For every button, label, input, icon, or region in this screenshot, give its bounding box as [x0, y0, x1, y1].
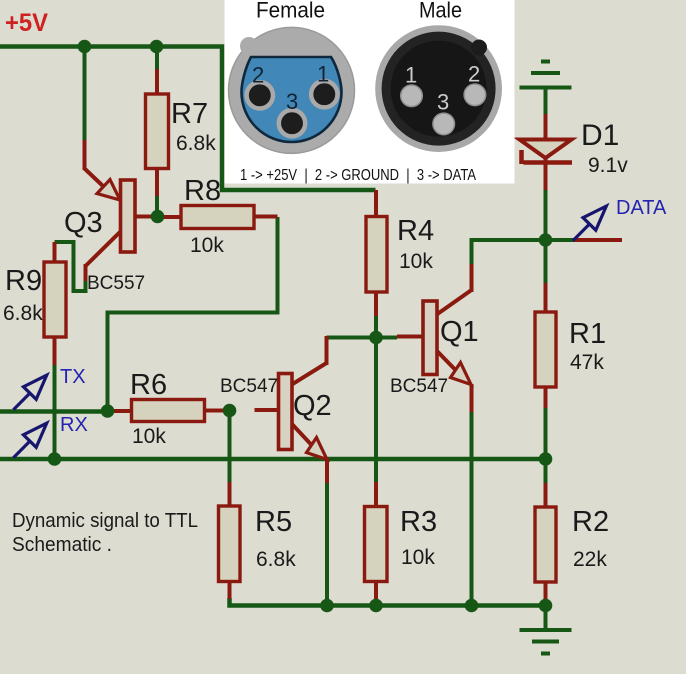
pin 2 of R3: [374, 581, 378, 602]
wire +5V rail from left edge around white panel to R4: [0, 47, 376, 191]
node rail/R2/ground: [539, 599, 553, 613]
ground symbol (bottom): [520, 630, 572, 654]
wire top ground stem: [544, 89, 548, 116]
pin 2 of R8: [254, 215, 278, 219]
wire D1 anode to DATA node and down to R1: [544, 189, 548, 285]
svg-text:6.8k: 6.8k: [176, 132, 216, 155]
node DATA: [539, 233, 553, 247]
svg-text:2: 2: [252, 62, 264, 87]
pin 2 of R4: [374, 292, 378, 316]
node Q2 collector/R4/R3: [369, 331, 383, 345]
svg-text:TX: TX: [60, 366, 86, 388]
svg-text:BC557: BC557: [87, 273, 145, 294]
svg-text:2: 2: [468, 61, 480, 86]
svg-text:R3: R3: [400, 506, 437, 538]
wire DATA node to terminal: [546, 238, 575, 242]
wire Q2 emitter down to bottom rail: [325, 482, 329, 606]
connector XLR male: [375, 25, 502, 152]
collector pin of Q2: [291, 363, 327, 385]
wire R9 bottom to RX line: [53, 364, 57, 459]
resistor R3: [365, 482, 438, 602]
svg-text:22k: 22k: [573, 548, 607, 571]
base bar of Q1: [423, 301, 437, 375]
base bar of Q2: [279, 374, 293, 450]
svg-text:R8: R8: [184, 175, 221, 207]
svg-text:R5: R5: [255, 506, 292, 538]
node rail/Q2 emitter: [320, 599, 334, 613]
base bar of Q3: [121, 180, 136, 252]
female blue insert: [242, 57, 342, 142]
resistor R8: [163, 175, 278, 257]
body of R8: [181, 206, 254, 229]
svg-text:10k: 10k: [401, 546, 435, 569]
node R7/R8/Q3 base: [151, 210, 165, 224]
wire RX line: [0, 457, 546, 462]
female shell: [229, 27, 355, 153]
node +5V/Q3: [78, 40, 92, 54]
svg-text:R2: R2: [572, 506, 609, 538]
svg-text:6.8k: 6.8k: [256, 548, 296, 571]
TX terminal stem: [13, 393, 30, 410]
wire TX line: [0, 409, 108, 414]
svg-text:DATA: DATA: [616, 197, 667, 219]
RX terminal stem: [13, 441, 30, 458]
svg-text:10k: 10k: [190, 234, 224, 257]
resistor R5: [219, 482, 297, 599]
node rail/Q1 emitter: [465, 599, 479, 613]
connector panel: [225, 0, 515, 184]
emitter pin of Q2: [291, 423, 312, 446]
wire Q1 collector up and right to DATA node: [472, 240, 546, 265]
body of R5: [219, 506, 241, 582]
node RX/R1/R2: [539, 452, 553, 466]
svg-text:RX: RX: [60, 414, 88, 436]
svg-text:R7: R7: [171, 98, 208, 130]
svg-text:9.1v: 9.1v: [588, 154, 628, 177]
svg-text:3: 3: [437, 89, 449, 114]
body of R4: [366, 217, 387, 293]
svg-text:Dynamic signal to TTL: Dynamic signal to TTL: [12, 510, 198, 532]
male face: [391, 41, 487, 137]
emitter arrow of Q1 (NPN): [451, 363, 472, 385]
pin 1 of R9: [53, 242, 57, 262]
pin 1 of R4: [374, 190, 378, 217]
svg-text:R4: R4: [397, 215, 434, 247]
transistor Q3: [64, 140, 160, 294]
pin 2 of R6: [205, 409, 227, 413]
wire bottom rail: [230, 598, 546, 606]
svg-text:R1: R1: [569, 318, 606, 350]
terminal RX: [13, 423, 46, 458]
emitter pin of Q3: [83, 140, 87, 170]
male pin contacts 1,2,3: [401, 84, 486, 135]
svg-text:Q3: Q3: [64, 207, 103, 239]
resistor R9: [3, 242, 66, 365]
resistor R7: [146, 69, 217, 196]
collector pin of Q3: [86, 231, 122, 266]
female keying tab: [240, 37, 258, 55]
TX terminal arrowhead: [23, 375, 46, 399]
svg-text:BC547: BC547: [220, 376, 278, 397]
wire +5V rail to Q3 emitter drop: [83, 47, 87, 143]
svg-text:+5V: +5V: [5, 9, 48, 37]
zener diode D1: [520, 114, 629, 190]
emitter arrow of Q2 (NPN): [307, 438, 328, 460]
pin 2 of R2: [544, 582, 548, 600]
wire R1 bottom to RX node to R2: [544, 407, 548, 484]
pin 1 of R3: [374, 482, 378, 507]
connector XLR female: [229, 27, 355, 153]
svg-text:Male: Male: [419, 0, 462, 23]
collector pin of Q1: [436, 290, 472, 315]
pin 2 of R7: [155, 169, 159, 197]
node +5V/R7: [150, 40, 164, 54]
pin DATA terminal: [574, 238, 622, 242]
wire R2 bottom to ground: [544, 599, 548, 628]
wire R7 bottom to base node: [155, 195, 159, 217]
node TX/R6: [101, 404, 115, 418]
svg-text:10k: 10k: [132, 425, 166, 448]
wire R9 top to Q3 collector: [55, 242, 86, 291]
wire R6 output node down to R5: [228, 411, 232, 484]
resistor R1: [535, 283, 606, 408]
body of R3: [365, 507, 388, 582]
node R6/R5: [223, 404, 237, 418]
DATA terminal stem: [573, 224, 590, 241]
svg-text:Q1: Q1: [440, 316, 479, 348]
wire Q1 emitter down to bottom rail: [470, 411, 474, 606]
node rail/R3: [369, 599, 383, 613]
female socket contacts 2,1,3: [247, 81, 338, 136]
pin 1 of R8: [163, 215, 181, 219]
base pin of Q3: [135, 215, 160, 219]
svg-text:10k: 10k: [399, 250, 433, 273]
svg-text:6.8k: 6.8k: [3, 302, 43, 325]
svg-text:1: 1: [317, 61, 329, 86]
body of R2: [535, 507, 556, 582]
male keying notch: [471, 40, 487, 56]
pin 1 of R1: [544, 283, 548, 313]
zener cathode bar of D1: [524, 160, 573, 165]
anode pin of D1: [544, 158, 548, 190]
resistor R2: [535, 483, 609, 600]
base pin of Q2: [255, 408, 279, 412]
male pin number 1: [405, 61, 480, 114]
terminal TX: [13, 375, 46, 410]
body of R6: [132, 400, 205, 422]
base pin of Q1: [397, 335, 423, 339]
female pin number 2: [252, 61, 329, 114]
male shell: [375, 25, 502, 152]
pin 2 of R9: [53, 337, 57, 365]
wire R8 right down-left to TX node: [108, 217, 278, 411]
svg-text:Schematic .: Schematic .: [12, 534, 112, 556]
svg-text:3: 3: [286, 89, 298, 114]
DATA terminal arrowhead: [583, 206, 606, 230]
cathode pin of D1: [544, 114, 548, 141]
pin 1 of R7: [155, 69, 159, 94]
svg-text:1: 1: [405, 62, 417, 87]
resistor R6: [112, 369, 226, 448]
pin 1 of R2: [544, 483, 548, 508]
body of R9: [44, 262, 66, 337]
svg-text:D1: D1: [581, 119, 619, 152]
body of R7: [146, 94, 169, 169]
node RX/R9: [48, 452, 62, 466]
male housing: [382, 32, 496, 146]
svg-text:Q2: Q2: [293, 390, 332, 422]
pin 2 of R5: [228, 582, 232, 600]
svg-text:BC547: BC547: [390, 376, 448, 397]
triangle of D1: [520, 140, 572, 159]
terminal DATA: [573, 206, 606, 241]
pin 1 of R6: [112, 409, 132, 413]
svg-text:1 -> +25V | 2 -> GROUND |: 1 -> +25V | 2 -> GROUND | 3 -> DATA: [240, 167, 477, 184]
wire R4 bottom through node down to R3: [374, 314, 378, 483]
emitter arrow of Q3 (PNP): [97, 180, 120, 201]
svg-text:R6: R6: [130, 369, 167, 401]
wire Q2 collector to base node of Q1: [327, 336, 398, 340]
emitter pin of Q1: [436, 350, 456, 371]
svg-text:Female: Female: [256, 0, 325, 23]
resistor R4: [366, 190, 434, 316]
pin 2 of R1: [544, 387, 548, 408]
transistor Q1: [390, 264, 479, 412]
body of R1: [535, 312, 556, 387]
svg-text:R9: R9: [5, 265, 42, 297]
transistor Q2: [220, 336, 332, 483]
wire R7 top drop: [155, 47, 159, 71]
svg-text:47k: 47k: [570, 351, 604, 374]
ground symbol (top, inverted): [520, 62, 572, 88]
pin 1 of R5: [228, 482, 232, 506]
RX terminal arrowhead: [23, 423, 46, 447]
